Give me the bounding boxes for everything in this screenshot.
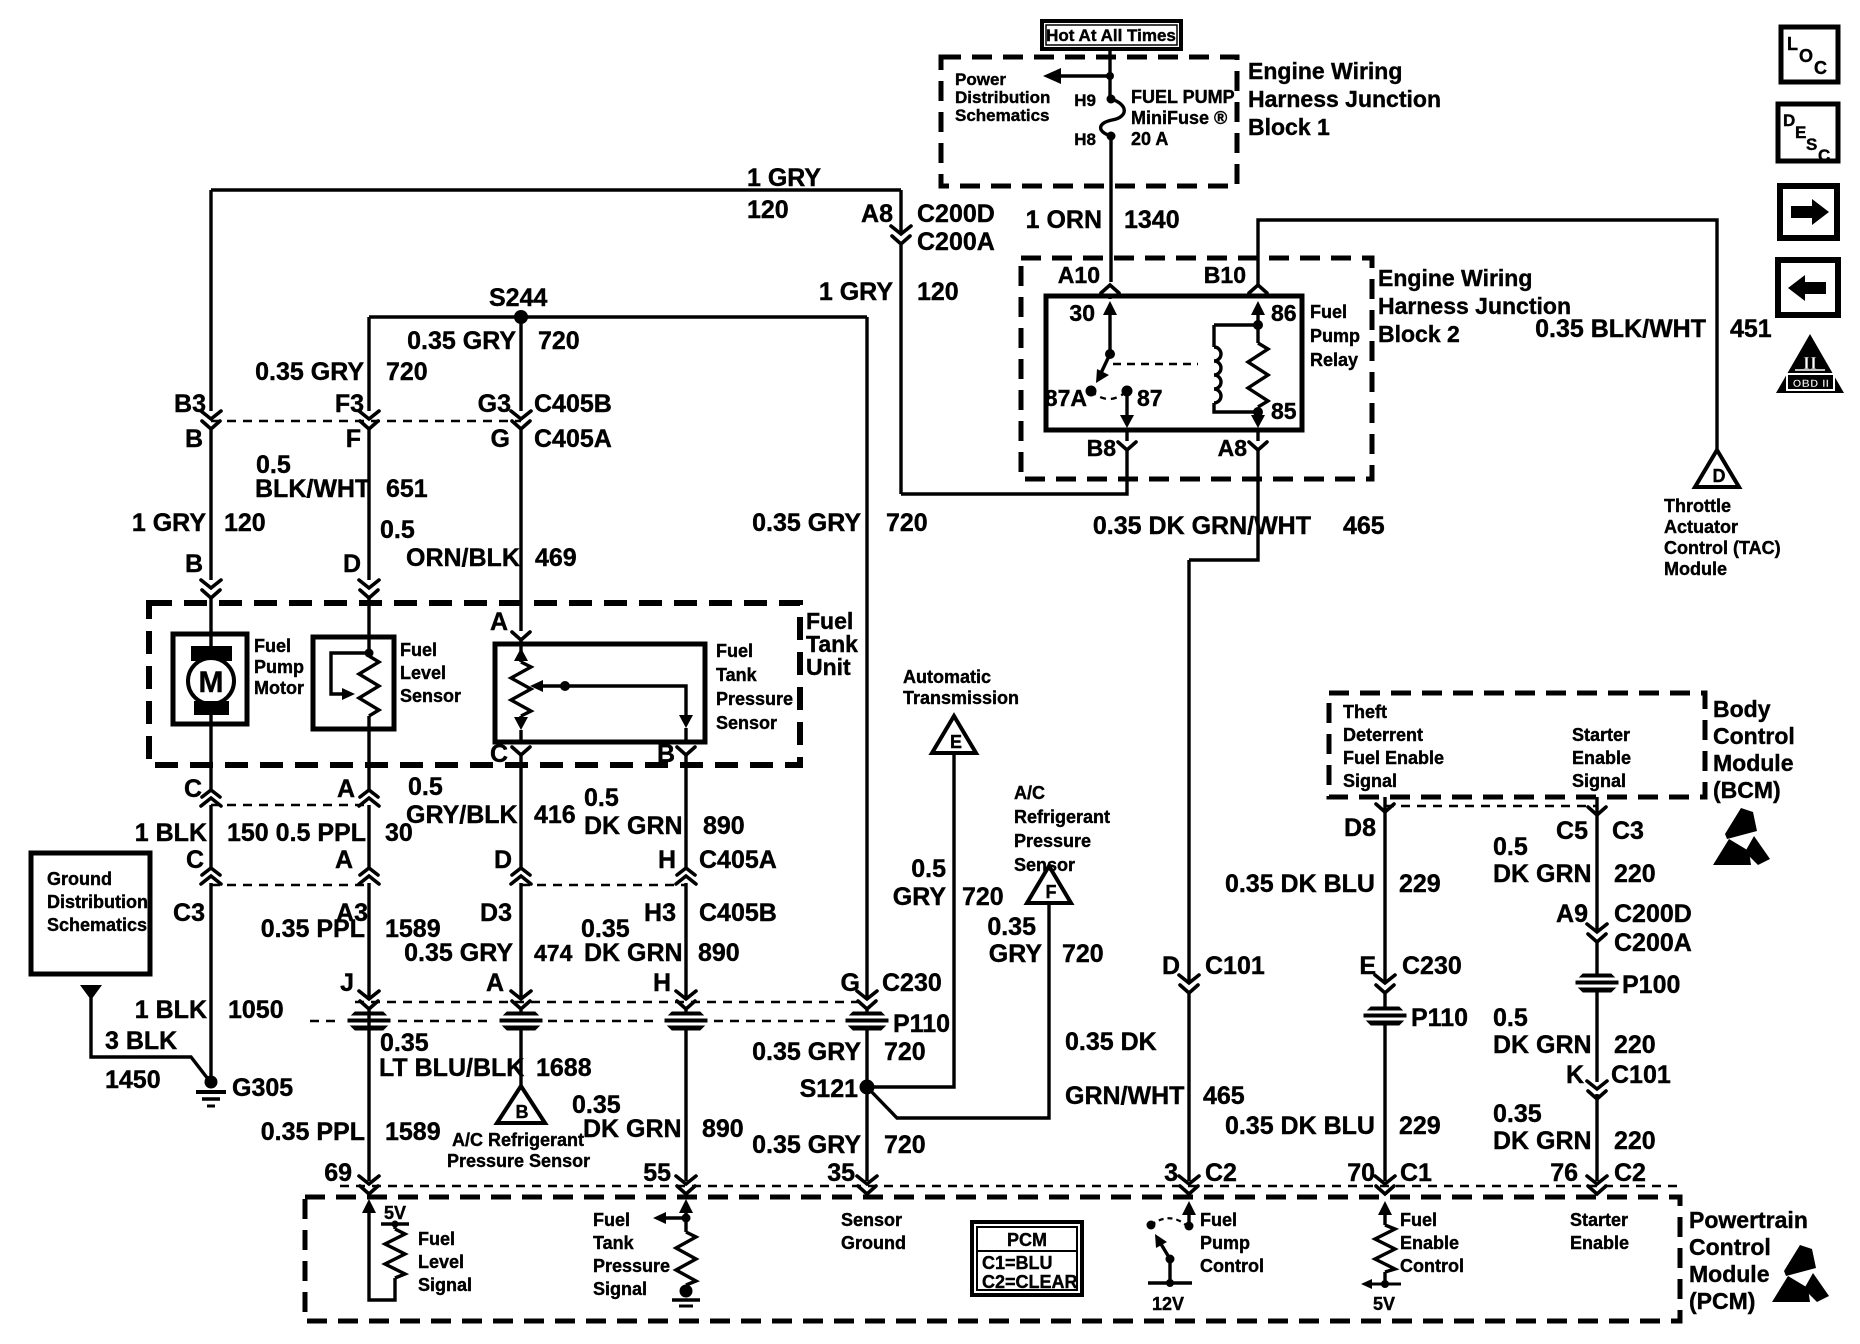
svg-text:C: C (186, 846, 204, 874)
svg-text:C1=BLU: C1=BLU (982, 1253, 1053, 1273)
pin A8 chevron (1218, 435, 1267, 461)
svg-text:B3: B3 (174, 390, 206, 418)
triangle B off-page A/C refrigerant pressure sensor (497, 1086, 545, 1123)
svg-text:Deterrent: Deterrent (1343, 725, 1423, 745)
svg-text:Control: Control (1400, 1256, 1464, 1276)
svg-text:Sensor: Sensor (841, 1210, 902, 1230)
svg-text:Enable: Enable (1572, 748, 1631, 768)
wire S121 to A/C refrigerant pressure sensor F (867, 905, 1049, 1118)
label C405A/C405B (right of H column) (699, 846, 777, 927)
svg-text:L: L (1787, 34, 1798, 54)
svg-text:Control: Control (1689, 1234, 1771, 1260)
svg-text:Fuel: Fuel (1400, 1210, 1437, 1230)
svg-text:BLK/WHT: BLK/WHT (255, 475, 370, 503)
label 0.35 PPL 1589 (261, 915, 441, 943)
connector D C101 (1162, 952, 1265, 993)
wire A8 relay down to fuel pump control (1189, 450, 1258, 1181)
svg-text:720: 720 (886, 509, 928, 537)
svg-text:12V: 12V (1152, 1294, 1184, 1314)
svg-text:D: D (494, 846, 512, 874)
svg-text:87A: 87A (1045, 385, 1087, 411)
svg-text:120: 120 (917, 278, 959, 306)
pin 76 C2 connector (1550, 1159, 1646, 1194)
label Fuel Pump Relay (1310, 302, 1360, 370)
svg-text:1450: 1450 (105, 1066, 161, 1094)
connector B (to fuel tank unit) (185, 550, 221, 598)
svg-text:465: 465 (1343, 512, 1385, 540)
ground distribution schematics box (31, 853, 150, 974)
svg-text:Signal: Signal (593, 1279, 647, 1299)
grommet (A/C sensor wire) (498, 1012, 544, 1030)
label Fuel Pump Control (1200, 1210, 1264, 1276)
svg-text:F: F (346, 425, 361, 453)
svg-text:Module: Module (1664, 559, 1727, 579)
label Engine Wiring Harness Junction Block 2 (1378, 265, 1571, 347)
label Fuel Tank Pressure Signal (593, 1210, 670, 1299)
wire hot to fuse (1108, 49, 1111, 99)
svg-text:A/C: A/C (1014, 783, 1045, 803)
label 0.35 GRY 720 (above S121) (752, 1038, 926, 1066)
svg-text:Fuel: Fuel (254, 636, 291, 656)
svg-text:0.35: 0.35 (1493, 1100, 1542, 1128)
label 1 GRY 120 (C200 column) (819, 278, 959, 306)
svg-text:Transmission: Transmission (903, 688, 1019, 708)
pin A10 chevron (1058, 262, 1119, 293)
label 0.35 DK GRN/WHT 465 (lower) (1065, 1028, 1245, 1110)
label 0.5 GRY 720 (E wire) (893, 855, 1004, 911)
svg-text:A: A (337, 775, 355, 803)
connector A (up) (337, 775, 379, 806)
svg-text:720: 720 (884, 1038, 926, 1066)
fuel level sensor (313, 637, 394, 765)
svg-text:Ground: Ground (47, 869, 112, 889)
connector H/H3 (up) (644, 846, 696, 927)
svg-text:1 GRY: 1 GRY (132, 509, 206, 537)
svg-text:1 ORN: 1 ORN (1026, 206, 1102, 234)
svg-text:Fuel: Fuel (1200, 1210, 1237, 1230)
svg-text:0.35 GRY: 0.35 GRY (752, 1038, 861, 1066)
label Fuel Tank Pressure Sensor (716, 641, 793, 733)
svg-text:720: 720 (386, 358, 428, 386)
svg-text:FUEL PUMP: FUEL PUMP (1131, 87, 1235, 107)
svg-text:H9: H9 (1074, 91, 1096, 110)
PCM legend box (972, 1222, 1082, 1295)
svg-text:0.5: 0.5 (408, 773, 443, 801)
svg-text:Block 2: Block 2 (1378, 321, 1460, 347)
label 3 BLK 1450 (105, 1027, 177, 1094)
svg-text:H: H (658, 846, 676, 874)
connector A8 C200D/C200A (861, 200, 995, 256)
svg-text:Unit: Unit (806, 654, 851, 680)
svg-text:Control: Control (1713, 723, 1795, 749)
label 0.35 GRY 720 (F column) (255, 358, 428, 386)
relay pin 30 + switch (1069, 300, 1117, 383)
connector G3/G C405B/C405A (478, 390, 612, 453)
svg-text:C5: C5 (1556, 817, 1588, 845)
connector A (down, grommet row, D column) (486, 969, 531, 1009)
label Sensor Ground (841, 1210, 906, 1253)
wire B8 down and left to C200 (901, 450, 1127, 494)
svg-text:Powertrain: Powertrain (1689, 1207, 1808, 1233)
connector D (to fuel tank unit) (343, 550, 379, 598)
arrow to power distribution (1043, 68, 1114, 84)
svg-text:C: C (184, 775, 202, 803)
label Power Distribution Schematics (955, 70, 1050, 125)
svg-text:C230: C230 (882, 969, 942, 997)
label 0.5 ORN/BLK 469 (380, 516, 577, 572)
svg-text:69: 69 (324, 1159, 352, 1187)
label Fuel Pump Motor (254, 636, 304, 698)
fuel tank pressure signal internal circuit (653, 1199, 700, 1306)
label 0.35 DK GRN/WHT 465 (1093, 512, 1385, 540)
svg-text:Actuator: Actuator (1664, 517, 1738, 537)
svg-text:5V: 5V (1373, 1294, 1395, 1314)
label Fuel Tank Unit (806, 608, 858, 680)
svg-text:Distribution: Distribution (955, 88, 1050, 107)
pin B8 chevron (1087, 435, 1136, 461)
connector F3/F (335, 390, 379, 453)
svg-text:Theft: Theft (1343, 702, 1387, 722)
label 0.35 GRY 720 (G column upper) (752, 509, 928, 537)
svg-text:0.35 DK GRN/WHT: 0.35 DK GRN/WHT (1093, 512, 1311, 540)
label A/C Refrigerant Pressure Sensor (447, 1130, 590, 1171)
svg-text:0.5: 0.5 (380, 516, 415, 544)
svg-text:Fuel: Fuel (418, 1229, 455, 1249)
svg-text:1340: 1340 (1124, 206, 1180, 234)
svg-text:Enable: Enable (1400, 1233, 1459, 1253)
wire fuel enable D8 column (1383, 797, 1386, 1181)
fuel pump motor M1 (173, 634, 247, 765)
svg-text:A8: A8 (1218, 435, 1248, 461)
svg-text:Module: Module (1689, 1261, 1770, 1287)
fuel pump control internal switch (1147, 1201, 1197, 1314)
svg-text:A: A (335, 846, 353, 874)
svg-text:3 BLK: 3 BLK (105, 1027, 177, 1055)
connector A/A3 (up) (335, 846, 379, 927)
relay actuation dashed link (1113, 363, 1198, 365)
label Automatic Transmission (903, 667, 1019, 708)
label 0.35 GRY 720 (F wire) (987, 913, 1103, 968)
dashed connector line grommet header row (355, 1001, 861, 1003)
wire level sensor column (367, 765, 370, 998)
svg-text:890: 890 (703, 812, 745, 840)
svg-text:Engine Wiring: Engine Wiring (1378, 265, 1532, 291)
svg-text:76: 76 (1550, 1159, 1578, 1187)
svg-text:Block 1: Block 1 (1248, 114, 1330, 140)
svg-text:Throttle: Throttle (1664, 496, 1731, 516)
svg-text:C3: C3 (1612, 817, 1644, 845)
svg-text:P110: P110 (893, 1010, 950, 1038)
svg-text:H: H (653, 969, 671, 997)
icon OBD II triangle (1776, 334, 1844, 393)
svg-text:Relay: Relay (1310, 350, 1358, 370)
svg-text:DK GRN: DK GRN (1493, 1127, 1592, 1155)
svg-text:F3: F3 (335, 390, 364, 418)
svg-text:C101: C101 (1205, 952, 1265, 980)
grommet P110 (sensor ground) (844, 1010, 950, 1038)
svg-text:C2=CLEAR: C2=CLEAR (982, 1272, 1078, 1292)
wire G column C405 (519, 317, 522, 650)
junction block 2 dashed box (1021, 258, 1372, 479)
svg-text:220: 220 (1614, 1031, 1656, 1059)
svg-text:474: 474 (534, 940, 573, 966)
svg-text:0.35: 0.35 (987, 913, 1036, 941)
svg-text:H3: H3 (644, 899, 676, 927)
connector E C230 (1359, 952, 1461, 993)
relay coil (1214, 325, 1258, 412)
grommet P110 (fuel enable) (1362, 1004, 1468, 1032)
label Powertrain Control Module (PCM) (1689, 1207, 1808, 1314)
svg-text:0.35 GRY: 0.35 GRY (407, 327, 516, 355)
pin B chevron (657, 740, 695, 768)
splice S121 (800, 1075, 875, 1103)
svg-text:Control (TAC): Control (TAC) (1664, 538, 1781, 558)
label Fuel Level Signal (418, 1229, 472, 1295)
label Body Control Module (BCM) (1713, 696, 1795, 803)
wire B10 to TAC (1258, 220, 1717, 450)
relay coil resistor (1248, 343, 1268, 407)
svg-text:651: 651 (386, 475, 428, 503)
label 0.35 GRY 720 (G column) (407, 327, 580, 355)
svg-text:30: 30 (1069, 300, 1095, 326)
svg-text:469: 469 (535, 544, 577, 572)
label 0.35 BLK/WHT 451 (1535, 315, 1772, 343)
pin C5 chevron (1556, 807, 1644, 845)
pin D8 chevron (1344, 804, 1394, 842)
svg-text:Sensor: Sensor (716, 713, 777, 733)
svg-text:87: 87 (1137, 385, 1163, 411)
svg-text:LT BLU/BLK: LT BLU/BLK (379, 1054, 524, 1082)
powertrain control module dashed box (305, 1197, 1680, 1321)
label 0.5 DK GRN 220 (mid) (1493, 1004, 1656, 1059)
svg-text:B: B (185, 425, 203, 453)
connector C/C3 (up) (173, 846, 221, 927)
grommet dashed line (310, 1020, 838, 1022)
label 0.35 DK BLU 229 (1225, 870, 1441, 898)
svg-text:0.35 DK BLU: 0.35 DK BLU (1225, 1112, 1375, 1140)
label 0.5 BLK/WHT 651 (255, 451, 428, 503)
wire F column (fuel level sensor feed) (367, 317, 370, 637)
svg-text:720: 720 (962, 883, 1004, 911)
connector G C230 (841, 969, 942, 1009)
pin C chevron (490, 740, 530, 768)
pin B10 chevron (1204, 262, 1267, 293)
label 0.35 GRY 720 (below S121) (752, 1131, 926, 1159)
svg-text:150: 150 (227, 819, 269, 847)
svg-text:0.5 PPL: 0.5 PPL (276, 819, 366, 847)
icon LOC box (1781, 27, 1838, 82)
svg-text:Signal: Signal (1343, 771, 1397, 791)
wire G column sensor ground (865, 317, 868, 1181)
svg-text:Module: Module (1713, 750, 1794, 776)
svg-text:1 BLK: 1 BLK (135, 819, 207, 847)
svg-text:G: G (841, 969, 860, 997)
svg-text:B: B (185, 550, 203, 578)
svg-text:229: 229 (1399, 870, 1441, 898)
label Fuel Level Sensor (400, 640, 461, 706)
svg-text:Level: Level (400, 663, 446, 683)
BCM pins dashed line (1385, 805, 1597, 807)
label Starter Enable (1570, 1210, 1629, 1253)
svg-text:0.35 PPL: 0.35 PPL (261, 1118, 365, 1146)
svg-text:0.5: 0.5 (1493, 1004, 1528, 1032)
svg-text:Pressure: Pressure (593, 1256, 670, 1276)
svg-text:Pump: Pump (254, 657, 304, 677)
label Fuel Enable Control (1400, 1210, 1464, 1276)
svg-text:1 GRY: 1 GRY (747, 164, 821, 192)
relay pin 86 (1251, 300, 1297, 343)
svg-text:Fuel: Fuel (400, 640, 437, 660)
fuse FUEL PUMP MiniFuse 20 A (1074, 87, 1234, 149)
label 1 BLK 150 (135, 819, 269, 847)
svg-text:C200A: C200A (1614, 929, 1692, 957)
label 0.35 LT BLU/BLK 1688 (379, 1029, 592, 1082)
svg-text:85: 85 (1271, 398, 1297, 424)
ESD symbol (BCM) (1713, 808, 1770, 865)
svg-text:Fuel: Fuel (1310, 302, 1347, 322)
svg-text:Enable: Enable (1570, 1233, 1629, 1253)
svg-text:A8: A8 (861, 200, 893, 228)
svg-text:0.35 DK: 0.35 DK (1065, 1028, 1157, 1056)
connector A9 C200D/C200A (1556, 900, 1692, 957)
svg-text:D8: D8 (1344, 814, 1376, 842)
svg-text:D: D (1783, 111, 1795, 130)
svg-text:J: J (340, 969, 354, 997)
svg-text:Refrigerant: Refrigerant (1014, 807, 1110, 827)
svg-text:E: E (950, 732, 962, 752)
svg-text:A10: A10 (1058, 262, 1100, 288)
svg-text:G3: G3 (478, 390, 511, 418)
connector K C101 (1566, 1061, 1671, 1099)
svg-text:ORN/BLK: ORN/BLK (406, 544, 520, 572)
svg-text:Distribution: Distribution (47, 892, 148, 912)
svg-text:1050: 1050 (228, 996, 284, 1024)
icon back arrow box (1778, 260, 1838, 315)
svg-text:0.35: 0.35 (380, 1029, 429, 1057)
dashed connector line C405 row 2 (211, 884, 686, 886)
svg-text:Pressure: Pressure (1014, 831, 1091, 851)
svg-text:P100: P100 (1622, 971, 1680, 999)
svg-text:MiniFuse ®: MiniFuse ® (1131, 108, 1227, 128)
svg-text:220: 220 (1614, 860, 1656, 888)
svg-text:(PCM): (PCM) (1689, 1288, 1755, 1314)
svg-text:A9: A9 (1556, 900, 1588, 928)
label A/C Refrigerant Pressure Sensor (F) (1014, 783, 1110, 875)
svg-text:C405A: C405A (699, 846, 777, 874)
svg-text:0.35 GRY: 0.35 GRY (404, 939, 513, 967)
svg-text:E: E (1359, 952, 1376, 980)
grommet P100 (1574, 971, 1680, 999)
svg-text:20 A: 20 A (1131, 129, 1168, 149)
ESD symbol (PCM) (1772, 1245, 1829, 1302)
fuel enable control internal circuit (1361, 1201, 1401, 1314)
svg-text:0.5: 0.5 (911, 855, 946, 883)
svg-text:C405B: C405B (699, 899, 777, 927)
svg-text:S121: S121 (800, 1075, 858, 1103)
svg-text:C: C (1814, 58, 1827, 78)
grommet (fuel tank pressure signal) (663, 1012, 709, 1030)
label 1 GRY 120 (left column) (132, 509, 266, 537)
svg-text:5V: 5V (384, 1203, 406, 1223)
svg-text:DK GRN: DK GRN (584, 939, 683, 967)
svg-text:C101: C101 (1611, 1061, 1671, 1089)
svg-text:Level: Level (418, 1252, 464, 1272)
svg-text:DK GRN: DK GRN (584, 812, 683, 840)
svg-text:Schematics: Schematics (955, 106, 1050, 125)
svg-text:Fuel: Fuel (593, 1210, 630, 1230)
pin 69 connector (324, 1159, 379, 1194)
label 0.35 GRY 474 (404, 939, 572, 967)
svg-text:K: K (1566, 1061, 1584, 1089)
svg-text:E: E (1795, 123, 1806, 142)
svg-text:D: D (1713, 466, 1726, 486)
fuel level signal internal circuit (362, 1199, 409, 1300)
connector D/D3 (up) (480, 846, 531, 927)
svg-text:1688: 1688 (536, 1054, 592, 1082)
fuel pump relay box (1046, 296, 1302, 430)
svg-text:Power: Power (955, 70, 1006, 89)
svg-text:S: S (1806, 135, 1817, 154)
svg-text:Engine Wiring: Engine Wiring (1248, 58, 1402, 84)
wire H column to PCM 55 (684, 755, 687, 1181)
svg-text:C2: C2 (1614, 1159, 1646, 1187)
triangle D throttle actuator control (1695, 450, 1739, 487)
body control module dashed box (1329, 693, 1705, 797)
svg-text:DK GRN: DK GRN (1493, 860, 1592, 888)
ground G305 (196, 1074, 293, 1106)
label 0.5 DK GRN 220 (1493, 833, 1656, 888)
svg-text:Harness Junction: Harness Junction (1248, 86, 1441, 112)
triangle E automatic transmission (932, 716, 976, 753)
wire 1 GRY 120 top horizontal (211, 188, 901, 191)
label 0.35 DK GRN 890 (581, 915, 740, 967)
svg-text:Starter: Starter (1572, 725, 1630, 745)
svg-text:A: A (486, 969, 504, 997)
svg-text:C405A: C405A (534, 425, 612, 453)
label 0.5 DK GRN 890 (584, 784, 745, 840)
svg-text:C: C (1818, 146, 1830, 165)
triangle F A/C refrigerant pressure sensor (1027, 866, 1071, 903)
connector C (up) (184, 775, 221, 806)
svg-text:G: G (491, 425, 510, 453)
svg-text:D: D (343, 550, 361, 578)
svg-text:Pump: Pump (1310, 326, 1360, 346)
junction block 1 dashed box (941, 57, 1237, 186)
svg-text:229: 229 (1399, 1112, 1441, 1140)
label 1 GRY 120 (top) (747, 164, 821, 224)
icon DESC box (1778, 104, 1838, 165)
svg-text:416: 416 (534, 801, 576, 829)
svg-text:Control: Control (1200, 1256, 1264, 1276)
connector row dashed line C405 (211, 420, 521, 422)
svg-text:Automatic: Automatic (903, 667, 991, 687)
svg-text:1 BLK: 1 BLK (135, 996, 207, 1024)
svg-text:C230: C230 (1402, 952, 1462, 980)
svg-text:O: O (1799, 46, 1813, 66)
label 0.35 PPL 1589 (lower) (261, 1118, 441, 1146)
svg-text:0.35 GRY: 0.35 GRY (255, 358, 364, 386)
svg-text:Schematics: Schematics (47, 915, 147, 935)
svg-text:55: 55 (643, 1159, 671, 1187)
svg-text:M: M (199, 666, 224, 699)
svg-text:(BCM): (BCM) (1713, 777, 1781, 803)
label 1 ORN 1340 (1026, 206, 1180, 234)
svg-text:Fuel: Fuel (716, 641, 753, 661)
connector J (down, grommet row) (340, 969, 379, 1009)
svg-text:Sensor: Sensor (400, 686, 461, 706)
svg-text:Sensor: Sensor (1014, 855, 1075, 875)
relay pin 85 (1253, 398, 1297, 424)
